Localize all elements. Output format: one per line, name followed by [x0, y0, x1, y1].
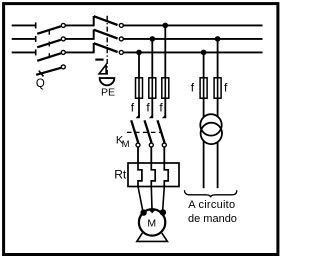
svg-text:M: M	[122, 139, 130, 150]
node dot L3/control branch	[201, 50, 207, 56]
switch Q pole 3	[36, 49, 66, 60]
wire motor branch 2 drop	[151, 39, 153, 118]
wire Rt to motor left	[138, 187, 143, 213]
thermal relay heater 3	[164, 163, 168, 187]
switch Q pole 2	[36, 36, 66, 47]
brace under control wires	[184, 190, 236, 197]
PE dome (chassis)	[100, 78, 115, 85]
node dot L3/motor branch 1	[136, 50, 142, 56]
wire control branch right drop	[217, 39, 219, 117]
node dot L1/motor branch 3	[163, 23, 169, 29]
thermal relay heater 1	[138, 163, 142, 187]
motor terminal dot right	[160, 209, 166, 215]
switch S pole 1	[94, 16, 124, 27]
contactor KM pole 1	[131, 114, 140, 163]
transformer T primary winding	[200, 114, 221, 135]
wire L1 phase line	[12, 24, 263, 26]
fuse F5	[214, 78, 221, 98]
contactor KM pole 3	[158, 114, 167, 163]
fuse F1	[136, 78, 143, 98]
node dot L2/motor branch 2	[150, 36, 156, 42]
wire L2 phase line	[12, 38, 263, 40]
wire transformer secondary right	[217, 142, 219, 188]
contactor KM pole 2	[145, 114, 154, 163]
switch S mechanical link to PE (dash-dot)	[106, 16, 108, 79]
wire motor branch 1 drop	[138, 52, 140, 117]
svg-text:A circuito: A circuito	[188, 199, 235, 211]
fuse F2	[149, 78, 156, 98]
wire transformer secondary left	[203, 141, 205, 188]
switch Q handle contact	[36, 65, 65, 77]
PE earth bar	[95, 58, 103, 60]
motor base pedestal	[137, 233, 168, 241]
wire Rt to motor middle	[150, 187, 153, 210]
wire control branch left drop	[203, 52, 205, 117]
switch Q pole 1	[36, 22, 66, 33]
wire L3 phase line	[12, 51, 263, 53]
switch S pole 3	[94, 43, 124, 54]
switch Q mechanical link (dashed)	[48, 30, 50, 61]
svg-text:de mando: de mando	[188, 213, 237, 225]
transformer T secondary winding	[201, 123, 222, 144]
node dot L2/control branch	[215, 36, 221, 42]
svg-text:M: M	[147, 217, 156, 229]
wire motor branch 3 drop	[164, 25, 166, 117]
thermal relay heater 2	[151, 163, 155, 187]
contactor KM mechanical link (dashed)	[127, 131, 162, 133]
motor M circle	[139, 209, 165, 235]
svg-text:Rt: Rt	[114, 168, 127, 182]
thermal relay Rt box	[128, 163, 179, 187]
wire Rt to motor right	[163, 187, 165, 212]
fuse F3	[162, 78, 169, 98]
motor terminal dot left	[140, 209, 146, 215]
svg-text:PE: PE	[101, 87, 115, 99]
motor terminal dot middle	[149, 207, 155, 213]
switch S pole 2	[94, 30, 124, 41]
fuse F4	[200, 78, 207, 98]
svg-text:Q: Q	[36, 78, 45, 90]
PE arrow triangle	[99, 65, 106, 74]
